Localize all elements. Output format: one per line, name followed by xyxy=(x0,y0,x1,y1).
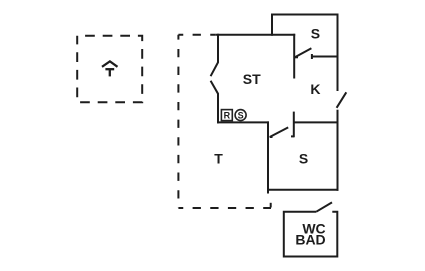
svg-text:ST: ST xyxy=(243,71,261,87)
svg-text:BAD: BAD xyxy=(295,231,325,247)
svg-text:S: S xyxy=(299,150,308,166)
svg-text:T: T xyxy=(214,150,223,166)
svg-text:S: S xyxy=(311,26,320,42)
svg-text:K: K xyxy=(310,81,320,97)
svg-text:R: R xyxy=(224,111,231,121)
svg-text:S: S xyxy=(238,110,244,120)
